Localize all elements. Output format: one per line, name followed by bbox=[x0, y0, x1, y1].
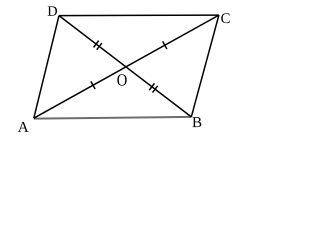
tick mark single on segment AO bbox=[91, 81, 95, 89]
tick mark double on segment OB bbox=[149, 83, 154, 90]
node label O (intersection of diagonals) bbox=[117, 74, 126, 86]
tick mark double on segment DO bbox=[94, 41, 99, 48]
side CB (right edge) bbox=[191, 15, 219, 117]
diagonal AC bbox=[34, 15, 219, 118]
side DC (top edge) bbox=[59, 14, 219, 17]
side AB (bottom edge, gray) bbox=[34, 117, 192, 119]
diagonal DB bbox=[59, 16, 191, 117]
side DA (left edge) bbox=[34, 16, 59, 119]
vertex label A bbox=[18, 122, 29, 132]
vertex label B bbox=[192, 117, 201, 127]
vertex label D bbox=[48, 6, 57, 15]
vertex label C bbox=[221, 13, 229, 23]
tick mark single on segment OC bbox=[163, 41, 167, 49]
